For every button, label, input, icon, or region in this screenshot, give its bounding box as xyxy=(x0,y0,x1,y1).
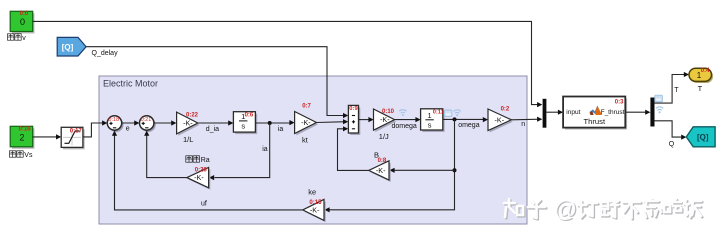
wire kt -> torque sum xyxy=(317,119,349,124)
saturation block xyxy=(61,127,84,149)
svg-text:1/J: 1/J xyxy=(379,132,389,141)
wire omega feedback vertical xyxy=(324,119,456,212)
svg-text:0:7: 0:7 xyxy=(302,103,311,109)
svg-text:2: 2 xyxy=(20,133,25,143)
svg-text:-K-: -K- xyxy=(380,115,390,124)
svg-text:T: T xyxy=(698,84,703,93)
svg-text:v: v xyxy=(22,35,26,42)
svg-text:0:9: 0:9 xyxy=(349,106,358,112)
svg-text:T: T xyxy=(674,87,679,94)
outport T (oval) xyxy=(689,68,713,93)
svg-text:0:6: 0:6 xyxy=(245,112,254,118)
svg-text:s: s xyxy=(428,121,432,130)
svg-text:B: B xyxy=(374,151,379,160)
svg-text:0:20: 0:20 xyxy=(195,167,208,173)
svg-text:kt: kt xyxy=(302,136,309,145)
wire Vs -> saturation xyxy=(33,134,62,139)
logging badges at demux xyxy=(655,95,663,113)
svg-text:s: s xyxy=(241,122,245,131)
wire uf: ke -> sum1 (minus) xyxy=(112,131,303,210)
svg-text:-K-: -K- xyxy=(310,206,320,215)
wire omega -> gain B xyxy=(389,168,454,173)
wire e: sum1 -> sum2 xyxy=(122,120,140,132)
svg-text:Q_delay: Q_delay xyxy=(92,50,119,57)
svg-text:0:16: 0:16 xyxy=(19,127,32,133)
svg-text:Vs: Vs xyxy=(24,152,33,159)
svg-text:0:15: 0:15 xyxy=(309,200,322,206)
watermark 知乎 @打野不忘吃饭 xyxy=(504,196,702,223)
wire thrust -> demux xyxy=(625,110,650,115)
integrator 1/s (speed) xyxy=(421,109,445,132)
mux xyxy=(543,99,547,128)
svg-text:@: @ xyxy=(554,196,577,222)
demux xyxy=(650,98,654,127)
svg-text:domega: domega xyxy=(392,123,417,130)
svg-text:0:10: 0:10 xyxy=(382,109,395,115)
svg-text:d_ia: d_ia xyxy=(206,126,219,133)
subsystem box Electric Motor xyxy=(99,76,527,224)
goto tag [Q] (cyan) xyxy=(686,127,715,147)
subsystem Thrust (MATLAB function F_thrust) xyxy=(563,97,627,130)
svg-text:0:2: 0:2 xyxy=(501,106,510,112)
sum junction Sum2 xyxy=(140,116,156,132)
svg-text:1/L: 1/L xyxy=(183,135,193,144)
svg-text:[Q]: [Q] xyxy=(62,43,74,52)
svg-text:ia: ia xyxy=(278,126,284,133)
svg-text:ia: ia xyxy=(262,146,268,153)
svg-text:e: e xyxy=(126,126,130,133)
svg-text:0:11: 0:11 xyxy=(433,109,444,115)
svg-text:n: n xyxy=(521,121,525,128)
gain 1/J xyxy=(374,109,407,141)
svg-text:[Q]: [Q] xyxy=(697,133,709,142)
wire ia junction -> Ra feedback xyxy=(209,123,270,180)
gain kt xyxy=(295,103,319,144)
wire domega: 1/J -> integrator xyxy=(392,117,421,130)
svg-text:0:18: 0:18 xyxy=(108,117,119,123)
wire ia: integrator -> gain kt xyxy=(255,120,294,133)
svg-text:0:4: 0:4 xyxy=(701,68,710,74)
wire Q: demux -> goto [Q] xyxy=(655,121,687,148)
logging badges (display + wifi) xyxy=(444,110,461,117)
wire mux -> thrust xyxy=(546,110,563,115)
gain 1/L xyxy=(177,112,200,144)
svg-text:0:21: 0:21 xyxy=(141,117,152,123)
wire omega: integrator -> gain xyxy=(443,117,488,129)
svg-text:omega: omega xyxy=(458,122,480,129)
sum block torque (- + -) xyxy=(348,105,360,135)
wire T: demux -> outport T xyxy=(655,72,690,103)
svg-text:uf: uf xyxy=(201,201,207,208)
wire B -> torque sum xyxy=(338,126,369,170)
wire Q_delay -> torque sum xyxy=(86,47,348,118)
svg-text:ke: ke xyxy=(308,187,316,196)
svg-text:-K-: -K- xyxy=(301,118,311,127)
svg-text:-K-: -K- xyxy=(194,173,204,182)
svg-text:0:3: 0:3 xyxy=(615,100,624,106)
sum junction Sum1 xyxy=(107,116,123,132)
wire 速度v -> Mux xyxy=(33,21,543,107)
svg-text:Thrust: Thrust xyxy=(584,117,606,126)
svg-text:0:17: 0:17 xyxy=(70,128,83,134)
svg-text:input: input xyxy=(566,109,580,116)
svg-text:1: 1 xyxy=(428,111,432,120)
wire sum2 -> gain 1/L xyxy=(154,120,177,125)
inport 电压Vs (constant 2) xyxy=(10,126,35,159)
svg-text:0: 0 xyxy=(20,17,25,27)
gain B (friction) xyxy=(369,151,391,182)
gain 电阻Ra xyxy=(186,156,211,190)
inport 速度v (constant 0) xyxy=(8,11,35,42)
svg-text:0:22: 0:22 xyxy=(186,113,199,119)
svg-text:Q: Q xyxy=(669,141,675,148)
svg-text:-K-: -K- xyxy=(495,115,505,124)
wire Ra -> sum2 (minus) xyxy=(144,131,187,178)
integrator 1/s (current) xyxy=(233,112,257,134)
wire n: gain -> Mux xyxy=(511,117,542,129)
svg-text:-K-: -K- xyxy=(183,119,193,128)
from tag Q_delay [Q] xyxy=(57,37,118,57)
gain ke (back emf) xyxy=(303,187,326,222)
wire torque sum -> gain 1/J xyxy=(359,117,374,122)
gain n (output) xyxy=(488,106,513,132)
svg-text:Electric Motor: Electric Motor xyxy=(103,79,158,89)
wire saturation -> sum1 xyxy=(83,120,107,136)
svg-text:0:0: 0:0 xyxy=(20,11,29,17)
svg-text:F_thrust: F_thrust xyxy=(601,109,625,116)
wire d_ia: gain 1/L -> integrator xyxy=(198,120,234,132)
svg-text:-K-: -K- xyxy=(376,166,386,175)
svg-text:Ra: Ra xyxy=(201,157,210,164)
